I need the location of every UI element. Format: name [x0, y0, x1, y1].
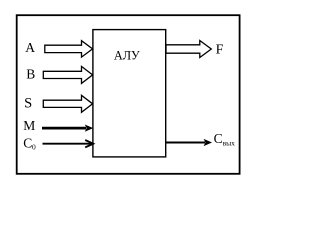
svg-text:C: C — [214, 131, 223, 146]
input arrow M (bold line arrow) — [42, 125, 93, 132]
outer frame — [17, 15, 240, 174]
svg-text:A: A — [25, 40, 35, 55]
svg-text:M: M — [23, 118, 35, 133]
svg-text:B: B — [26, 66, 35, 81]
svg-text:F: F — [216, 42, 224, 57]
svg-text:C: C — [23, 135, 32, 150]
output arrow F (block arrow) — [166, 41, 211, 58]
output arrow Cout (line arrow) — [166, 139, 212, 146]
svg-text:0: 0 — [32, 142, 36, 151]
input arrow A (block arrow) — [45, 41, 93, 57]
input arrow S (block arrow) — [43, 95, 92, 112]
input arrow C0 (line arrow, open head) — [43, 140, 94, 147]
svg-text:вых: вых — [223, 138, 236, 147]
svg-text:АЛУ: АЛУ — [114, 49, 140, 63]
input arrow B (block arrow) — [43, 66, 92, 83]
svg-text:S: S — [24, 96, 32, 112]
ALU block U1 — [93, 30, 166, 157]
